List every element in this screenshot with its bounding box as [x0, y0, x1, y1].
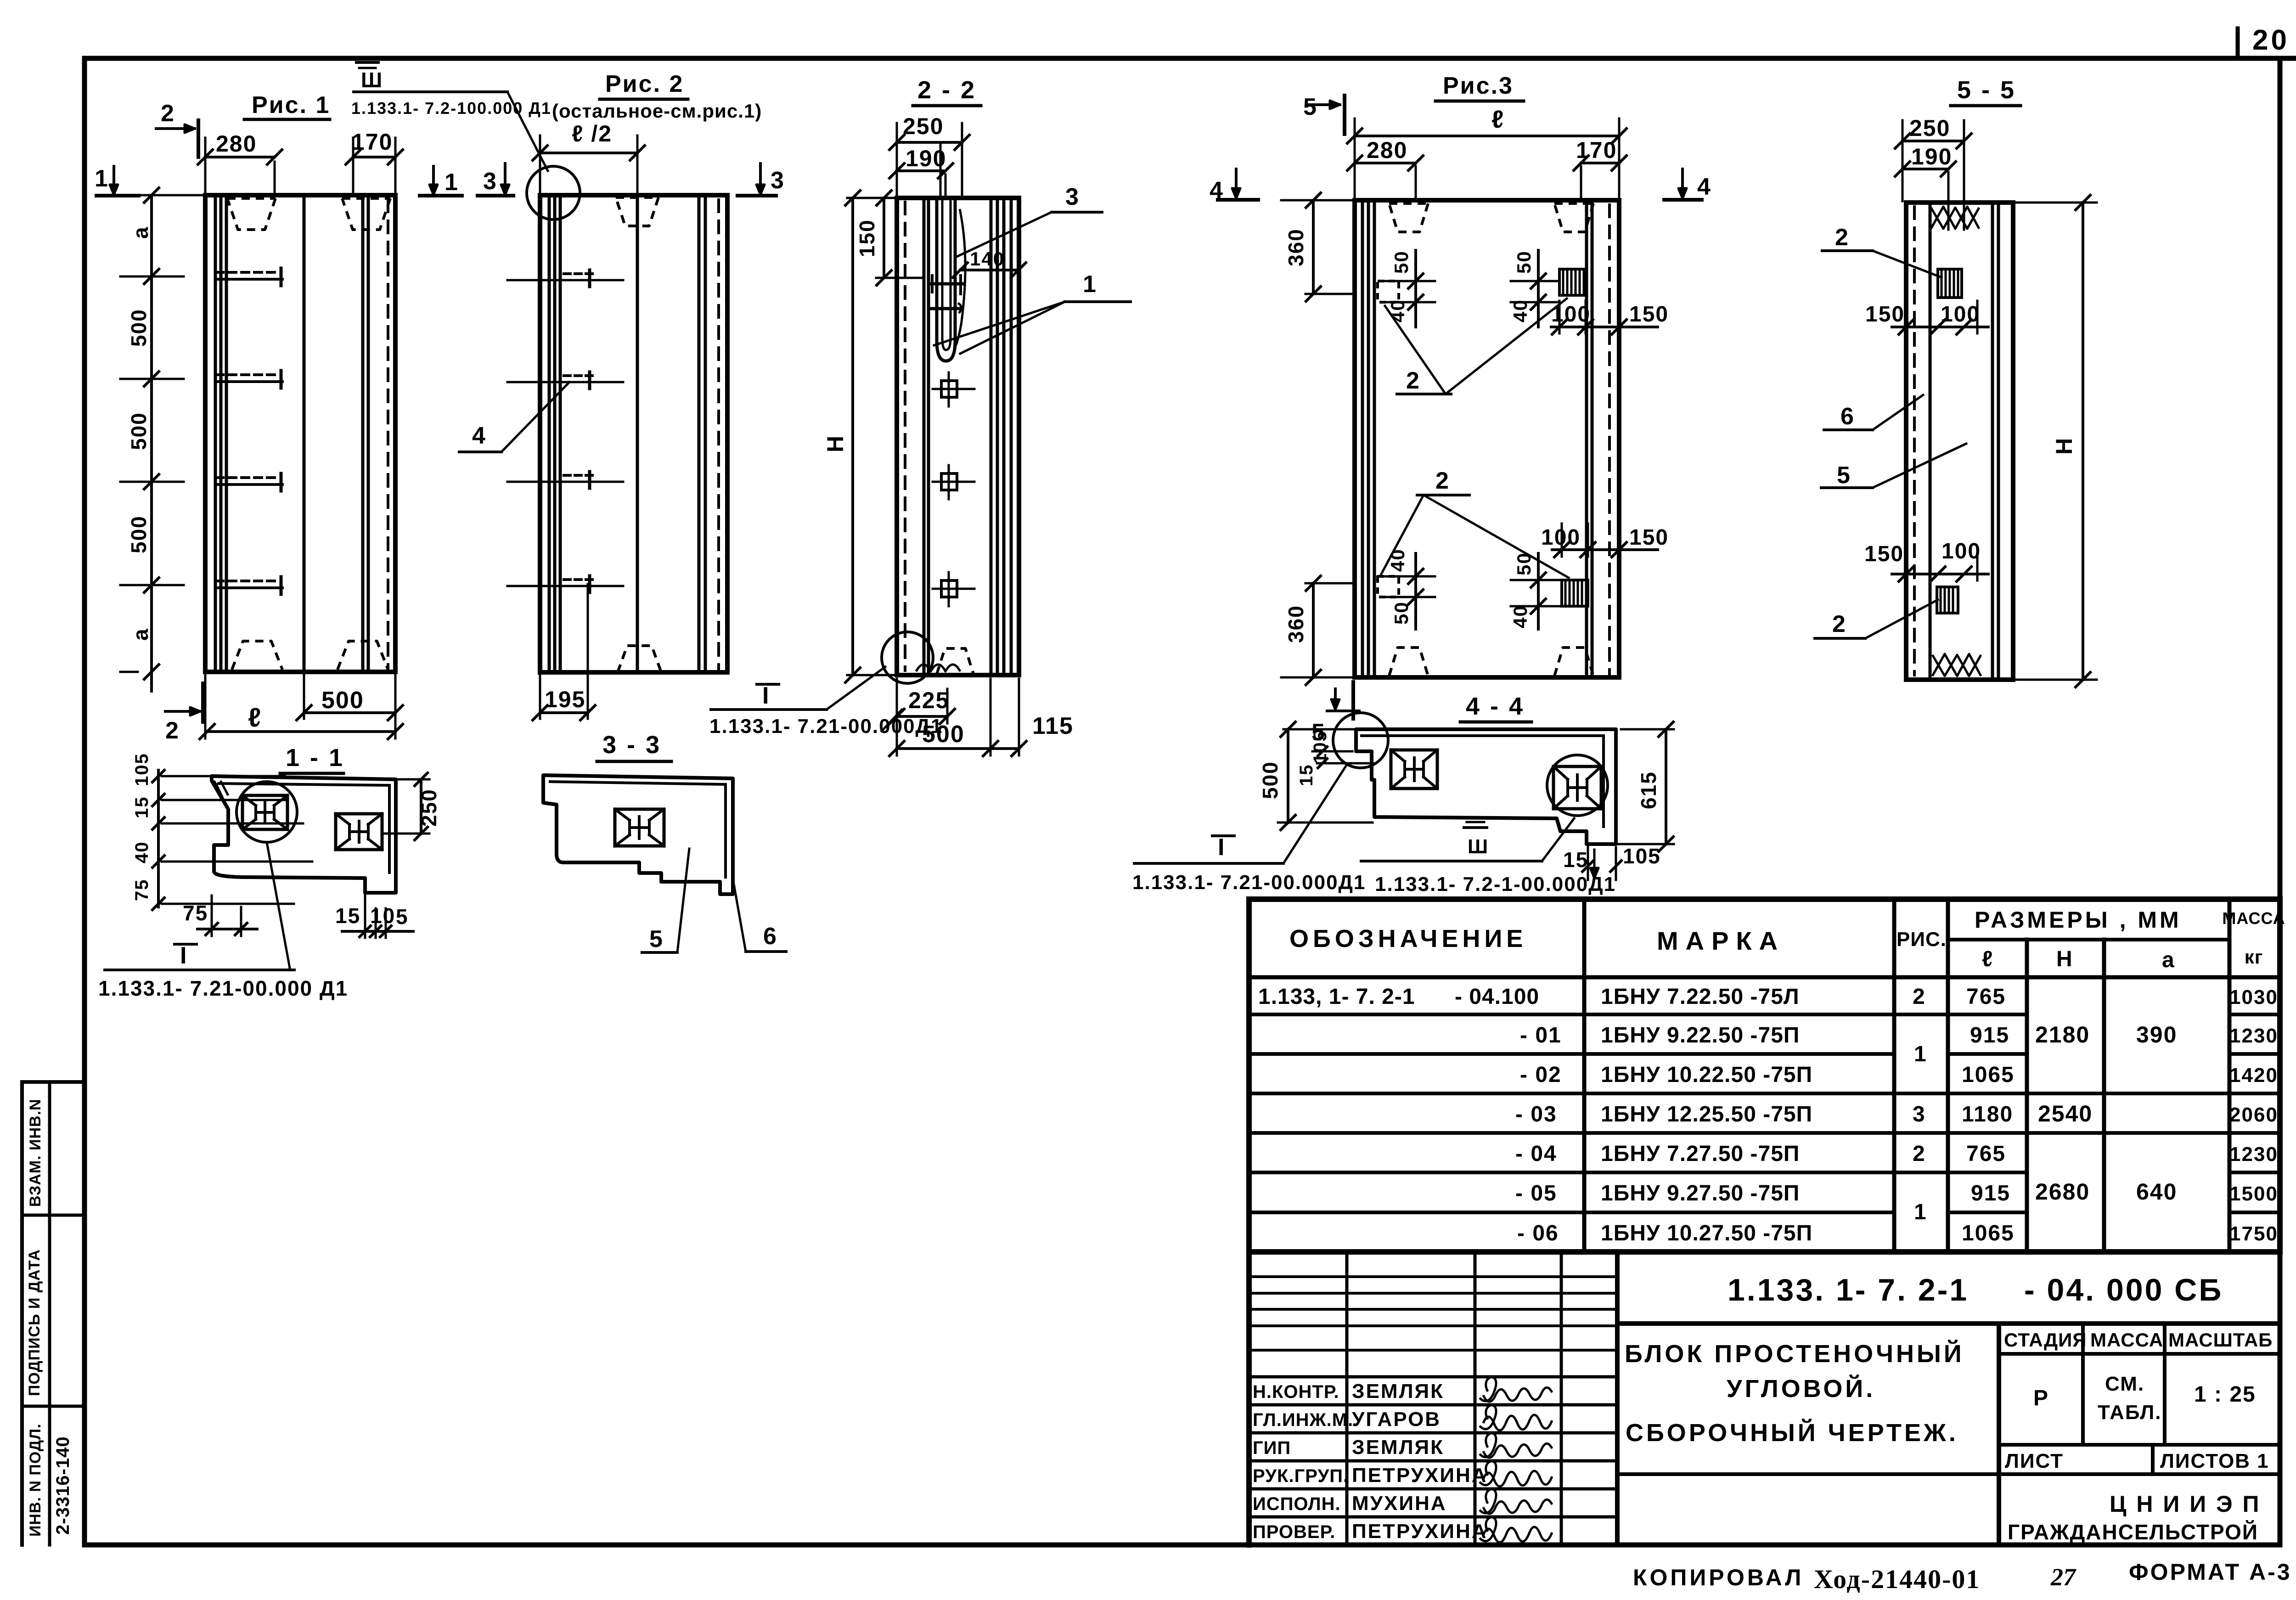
1-1 corner block plan outline — [212, 776, 396, 893]
svg-text:1750: 1750 — [2229, 1223, 2278, 1245]
svg-text:5: 5 — [1837, 462, 1851, 489]
svg-text:ЛИСТОВ 1: ЛИСТОВ 1 — [2160, 1450, 2269, 1472]
svg-text:1.133.1- 7.21-00.000Д1: 1.133.1- 7.21-00.000Д1 — [1132, 871, 1366, 894]
svg-text:765: 765 — [1966, 1142, 2006, 1166]
anchor plate (4-4 left) — [1391, 750, 1437, 789]
svg-text:5: 5 — [1303, 94, 1317, 120]
svg-text:а: а — [2162, 948, 2175, 972]
svg-text:- 04.100: - 04.100 — [1455, 985, 1539, 1009]
svg-text:500: 500 — [127, 412, 151, 450]
svg-text:3: 3 — [1913, 1102, 1926, 1127]
detail callout circle Ⅲ — [527, 166, 580, 220]
svg-text:Ход-21440-01: Ход-21440-01 — [1814, 1564, 1980, 1594]
svg-text:2060: 2060 — [2229, 1104, 2278, 1126]
hatched anchor — [1938, 269, 1962, 298]
svg-text:Рис. 1: Рис. 1 — [252, 92, 330, 118]
svg-text:СТАДИЯ: СТАДИЯ — [2004, 1329, 2087, 1351]
svg-text:40: 40 — [132, 841, 152, 864]
svg-text:500: 500 — [127, 515, 151, 553]
svg-text:765: 765 — [1966, 985, 2006, 1009]
4-4 block plan outline — [1356, 729, 1616, 844]
svg-text:1: 1 — [445, 169, 459, 196]
svg-text:Рис.3: Рис.3 — [1443, 73, 1514, 99]
table row lines — [1249, 1013, 2027, 1016]
detail callout circle Ⅰ (1-1) — [236, 782, 297, 842]
anchor plate (2-2) — [941, 381, 957, 397]
anchor loop detail (поз.1/3) — [937, 200, 955, 361]
svg-text:190: 190 — [1911, 144, 1952, 169]
svg-text:ИНВ. N ПОДЛ.: ИНВ. N ПОДЛ. — [27, 1424, 44, 1537]
svg-text:2180: 2180 — [2035, 1022, 2090, 1048]
svg-text:360: 360 — [1284, 605, 1308, 643]
svg-text:Н: Н — [2051, 437, 2077, 455]
left margin strip — [20, 1082, 24, 1545]
svg-text:Н: Н — [2056, 947, 2073, 971]
svg-text:6: 6 — [763, 923, 777, 950]
svg-text:ГЛ.ИНЖ.М.: ГЛ.ИНЖ.М. — [1253, 1410, 1353, 1430]
dimension 150 (2-2) — [883, 198, 885, 278]
svg-text:1500: 1500 — [2229, 1183, 2278, 1205]
svg-text:кг: кг — [2245, 946, 2263, 968]
svg-text:140: 140 — [970, 248, 1005, 270]
svg-text:Ц Н И И Э П: Ц Н И И Э П — [2110, 1491, 2261, 1517]
svg-text:I: I — [762, 682, 770, 709]
svg-text:ЛИСТ: ЛИСТ — [2005, 1450, 2064, 1472]
svg-text:1БНУ 9.27.50 -75П: 1БНУ 9.27.50 -75П — [1601, 1181, 1800, 1206]
svg-text:100: 100 — [1941, 539, 1981, 563]
anchor plate (3-3) — [615, 809, 664, 846]
svg-text:15: 15 — [1296, 764, 1317, 787]
svg-text:ОБОЗНАЧЕНИЕ: ОБОЗНАЧЕНИЕ — [1289, 925, 1527, 952]
dimension H (5-5) — [2082, 203, 2084, 680]
dashed anchor pocket bottom-left — [1378, 576, 1399, 597]
insulation zigzag bottom — [1932, 654, 1981, 676]
Рис.3 block outline — [1355, 200, 1619, 677]
svg-text:РИС.: РИС. — [1896, 928, 1947, 951]
svg-text:390: 390 — [2136, 1022, 2177, 1048]
3-3 block plan outline — [543, 775, 733, 894]
svg-text:УГЛОВОЙ.: УГЛОВОЙ. — [1727, 1375, 1875, 1403]
svg-text:1: 1 — [1083, 271, 1097, 298]
svg-text:50: 50 — [1513, 250, 1535, 274]
svg-text:1.133.1- 7.21-00.000 Д1: 1.133.1- 7.21-00.000 Д1 — [98, 976, 348, 1000]
svg-text:КОПИРОВАЛ: КОПИРОВАЛ — [1633, 1565, 1804, 1590]
svg-text:ПОДПИСЬ И ДАТА: ПОДПИСЬ И ДАТА — [26, 1249, 43, 1396]
revision grid — [1249, 1275, 1617, 1278]
dimension 250 right (1-1) — [420, 779, 422, 834]
svg-text:(остальное-см.рис.1): (остальное-см.рис.1) — [552, 100, 762, 122]
lifting socket (dashed trapezoid) — [1554, 203, 1593, 232]
dashed anchor pocket top-left — [1378, 281, 1399, 302]
svg-text:1065: 1065 — [1962, 1063, 2015, 1087]
svg-text:250: 250 — [903, 113, 944, 139]
svg-text:ЗЕМЛЯК: ЗЕМЛЯК — [1352, 1380, 1444, 1403]
svg-text:360: 360 — [1284, 228, 1308, 266]
svg-text:МАССА: МАССА — [2222, 909, 2285, 928]
title block — [1246, 1252, 1252, 1545]
leader from circle Ⅰ — [267, 842, 290, 968]
svg-text:ℓ /2: ℓ /2 — [572, 121, 612, 146]
2-2 internal layer lines — [904, 202, 906, 670]
svg-text:3: 3 — [1065, 184, 1080, 210]
svg-text:1БНУ 12.25.50 -75П: 1БНУ 12.25.50 -75П — [1601, 1102, 1812, 1127]
svg-text:1БНУ 7.27.50 -75П: 1БНУ 7.27.50 -75П — [1601, 1142, 1800, 1166]
svg-text:2 - 2: 2 - 2 — [917, 76, 976, 104]
svg-text:МАРКА: МАРКА — [1657, 926, 1785, 955]
dimension H (2-2) — [851, 198, 854, 675]
svg-text:5: 5 — [649, 926, 664, 952]
svg-text:15: 15 — [132, 796, 152, 819]
svg-text:3: 3 — [771, 167, 785, 194]
svg-text:2-3316-140: 2-3316-140 — [53, 1436, 73, 1535]
tie marks (поз.4) Рис.2 — [507, 279, 623, 282]
svg-text:ЗЕМЛЯК: ЗЕМЛЯК — [1352, 1436, 1444, 1459]
stamp: СТАДИЯ МАССА МАСШТАБ — [1999, 1352, 2280, 1356]
detail callout circle Ⅲ (4-4) — [1547, 755, 1608, 816]
svg-text:3: 3 — [483, 168, 497, 195]
svg-text:500: 500 — [922, 721, 965, 748]
svg-text:1БНУ 7.22.50 -75Л: 1БНУ 7.22.50 -75Л — [1601, 985, 1800, 1009]
left dimension chain (1-1) — [157, 770, 160, 907]
svg-text:1230: 1230 — [2229, 1143, 2278, 1166]
svg-text:a: a — [129, 226, 152, 239]
svg-text:ТАБЛ.: ТАБЛ. — [2098, 1401, 2162, 1424]
5-5 wall section outline — [1906, 203, 2013, 680]
svg-text:3 - 3: 3 - 3 — [602, 731, 661, 759]
Рис.2 block outline — [540, 195, 727, 672]
hatched anchor — [1562, 580, 1588, 606]
svg-text:150: 150 — [1864, 542, 1904, 566]
svg-text:- 02: - 02 — [1520, 1063, 1562, 1087]
stamp: ЛИСТ / ЛИСТОВ row — [1999, 1443, 2280, 1447]
svg-text:4: 4 — [472, 423, 486, 449]
svg-text:250: 250 — [1909, 115, 1950, 141]
svg-text:170: 170 — [1576, 137, 1617, 163]
svg-text:1БНУ 10.27.50 -75П: 1БНУ 10.27.50 -75П — [1601, 1221, 1812, 1245]
5-5 internal layer lines — [1913, 207, 1916, 675]
svg-text:ℓ: ℓ — [1491, 106, 1504, 133]
svg-text:100: 100 — [1941, 302, 1980, 327]
svg-text:Н: Н — [822, 435, 848, 452]
svg-text:1: 1 — [1914, 1200, 1927, 1224]
lifting socket (dashed trapezoid) — [618, 646, 661, 672]
lifting socket (dashed trapezoid) — [616, 197, 658, 226]
svg-text:1.133, 1- 7. 2-1: 1.133, 1- 7. 2-1 — [1258, 985, 1415, 1009]
svg-text:1230: 1230 — [2229, 1025, 2278, 1047]
svg-text:РАЗМЕРЫ , ММ: РАЗМЕРЫ , ММ — [1975, 907, 2182, 933]
svg-text:1.133.1- 7.2-1-00.000Д1: 1.133.1- 7.2-1-00.000Д1 — [1375, 873, 1616, 896]
lifting socket (dashed trapezoid) — [1554, 648, 1593, 676]
Рис.1 block outline — [205, 195, 395, 672]
svg-text:- 01: - 01 — [1520, 1023, 1562, 1048]
dimension 360 top (Рис.3) — [1312, 200, 1315, 294]
detail callout circle Ⅰ — [882, 632, 933, 683]
svg-text:МУХИНА: МУХИНА — [1352, 1492, 1447, 1515]
lifting socket (dashed trapezoid) — [227, 198, 276, 230]
svg-text:6: 6 — [1840, 403, 1855, 430]
svg-text:40: 40 — [1509, 605, 1531, 628]
lifting socket (dashed trapezoid) — [1389, 203, 1428, 232]
svg-text:Р: Р — [2033, 1386, 2049, 1410]
svg-text:СМ.: СМ. — [2105, 1373, 2144, 1395]
hatched anchor — [1937, 587, 1958, 613]
svg-text:1: 1 — [95, 165, 109, 192]
chamfer hatch — [214, 781, 228, 809]
anchor plate (2-2) — [941, 473, 957, 490]
svg-text:2680: 2680 — [2035, 1179, 2090, 1205]
svg-text:1.133. 1- 7. 2-1: 1.133. 1- 7. 2-1 — [1728, 1273, 1969, 1307]
svg-text:50: 50 — [1390, 250, 1412, 274]
svg-text:50: 50 — [1390, 601, 1412, 625]
lifting socket (dashed trapezoid) — [232, 641, 282, 670]
svg-text:1.133.1- 7.21-00.000Д1: 1.133.1- 7.21-00.000Д1 — [709, 715, 943, 738]
svg-text:225: 225 — [908, 687, 949, 713]
svg-text:ВЗАМ. ИНВ.N: ВЗАМ. ИНВ.N — [27, 1099, 44, 1207]
svg-text:2: 2 — [1832, 611, 1846, 637]
svg-text:4: 4 — [1697, 174, 1711, 200]
anchor plate (4-4 right, circled) — [1553, 766, 1601, 809]
Рис.1 internal layer lines — [214, 195, 217, 672]
leader to detail circle — [507, 92, 548, 171]
svg-text:1180: 1180 — [1962, 1102, 2013, 1127]
insulation zigzag top — [1931, 207, 1979, 229]
svg-text:500: 500 — [127, 309, 151, 347]
anchor plate (1-1 circled) — [242, 795, 287, 829]
svg-text:105: 105 — [1623, 844, 1661, 868]
hatched anchor — [1559, 269, 1586, 295]
svg-text:500: 500 — [321, 687, 364, 714]
svg-text:ФОРМАТ А-3: ФОРМАТ А-3 — [2129, 1559, 2292, 1585]
anchor plate (1-1 right) — [336, 814, 382, 850]
svg-text:1 : 25: 1 : 25 — [2194, 1382, 2256, 1407]
svg-text:ℓ: ℓ — [1982, 947, 1993, 971]
svg-text:615: 615 — [1637, 771, 1660, 809]
svg-text:915: 915 — [1970, 1023, 2009, 1048]
leader to circle Ⅰ — [1283, 766, 1346, 863]
svg-text:150: 150 — [1865, 302, 1905, 327]
svg-text:1: 1 — [1914, 1042, 1927, 1066]
svg-text:УГАРОВ: УГАРОВ — [1352, 1408, 1441, 1431]
dimension 615 (4-4) — [1665, 729, 1667, 844]
svg-text:РУК.ГРУП.: РУК.ГРУП. — [1253, 1466, 1349, 1486]
tie marks (поз.4) — [216, 278, 282, 281]
dimension 500 (4-4) — [1287, 729, 1289, 823]
svg-text:a: a — [129, 628, 152, 641]
svg-text:СБОРОЧНЫЙ ЧЕРТЕЖ.: СБОРОЧНЫЙ ЧЕРТЕЖ. — [1626, 1419, 1958, 1447]
svg-text:2: 2 — [1913, 1142, 1926, 1166]
РАЗМЕРЫ header underline — [1948, 938, 2229, 941]
2-2 wall section outline — [897, 198, 1019, 675]
svg-text:1065: 1065 — [1962, 1221, 2015, 1245]
svg-text:2: 2 — [1435, 468, 1450, 494]
svg-text:20: 20 — [2252, 24, 2290, 56]
sheet border frame — [84, 56, 2280, 61]
svg-text:МАСШТАБ: МАСШТАБ — [2168, 1329, 2273, 1351]
specification table frame — [1249, 896, 2280, 902]
svg-text:- 03: - 03 — [1515, 1102, 1557, 1127]
table header separator — [1249, 975, 2280, 980]
lifting socket (dashed trapezoid) — [1389, 648, 1428, 676]
svg-text:ПРОВЕР.: ПРОВЕР. — [1253, 1522, 1335, 1542]
svg-text:280: 280 — [1367, 137, 1407, 163]
svg-text:ГИП: ГИП — [1253, 1438, 1291, 1458]
svg-text:1БНУ 9.22.50 -75П: 1БНУ 9.22.50 -75П — [1601, 1023, 1800, 1048]
svg-text:75: 75 — [183, 901, 208, 925]
lifting socket (dashed trapezoid) — [342, 198, 390, 230]
Рис.2 internal layer lines — [548, 195, 551, 672]
anchor plate (2-2) — [941, 580, 957, 597]
svg-text:Рис. 2: Рис. 2 — [605, 71, 684, 97]
svg-text:2: 2 — [1406, 367, 1420, 394]
svg-text:2: 2 — [1835, 224, 1849, 251]
svg-text:ℓ: ℓ — [248, 703, 262, 732]
svg-text:ГРАЖДАНСЕЛЬСТРОЙ: ГРАЖДАНСЕЛЬСТРОЙ — [2008, 1520, 2258, 1544]
signature rows — [1249, 1403, 1617, 1407]
leader to circle Ⅲ — [1542, 818, 1574, 861]
detail callout circle Ⅰ (4-4) — [1333, 713, 1388, 768]
svg-text:БЛОК ПРОСТЕНОЧНЫЙ: БЛОК ПРОСТЕНОЧНЫЙ — [1625, 1340, 1964, 1368]
Рис.3 internal layer lines — [1361, 200, 1364, 677]
svg-text:1 - 1: 1 - 1 — [286, 744, 344, 772]
svg-text:250: 250 — [417, 789, 441, 827]
svg-text:- 06: - 06 — [1517, 1221, 1559, 1245]
svg-text:- 04: - 04 — [1515, 1142, 1557, 1166]
svg-text:5 - 5: 5 - 5 — [1957, 76, 2016, 104]
svg-text:10: 10 — [370, 904, 395, 928]
svg-text:500: 500 — [1258, 761, 1282, 799]
svg-text:I: I — [1218, 834, 1225, 861]
svg-text:Ш: Ш — [1468, 835, 1489, 858]
svg-text:115: 115 — [1032, 713, 1074, 739]
svg-text:915: 915 — [1971, 1181, 2010, 1206]
svg-text:640: 640 — [2136, 1179, 2177, 1205]
table column lines — [1582, 899, 1587, 1252]
svg-text:- 04. 000 СБ: - 04. 000 СБ — [2024, 1273, 2223, 1307]
concrete break line — [916, 665, 960, 671]
svg-text:ПЕТРУХИНА: ПЕТРУХИНА — [1352, 1464, 1488, 1487]
svg-text:195: 195 — [545, 687, 585, 712]
svg-text:ИСПОЛН.: ИСПОЛН. — [1253, 1494, 1341, 1514]
svg-text:280: 280 — [216, 131, 257, 157]
svg-text:150: 150 — [1629, 525, 1669, 550]
svg-text:- 05: - 05 — [1515, 1181, 1557, 1206]
svg-text:Н.КОНТР.: Н.КОНТР. — [1253, 1382, 1339, 1402]
lifting socket (dashed trapezoid) — [338, 641, 388, 670]
left dimension chain (a,500,500,500,a) — [150, 195, 153, 691]
svg-text:Ш: Ш — [361, 68, 383, 92]
leader to bottom detail circle — [827, 667, 885, 710]
stamp: organization — [1999, 1472, 2280, 1476]
svg-text:150: 150 — [855, 219, 879, 257]
svg-text:2540: 2540 — [2038, 1101, 2093, 1127]
svg-text:1.133.1- 7.2-100.000 Д1: 1.133.1- 7.2-100.000 Д1 — [351, 99, 551, 118]
svg-text:4 - 4: 4 - 4 — [1466, 693, 1525, 720]
svg-text:75: 75 — [132, 879, 152, 901]
svg-text:27: 27 — [2050, 1563, 2077, 1591]
svg-text:1БНУ 10.22.50 -75П: 1БНУ 10.22.50 -75П — [1601, 1063, 1812, 1087]
svg-text:I: I — [180, 942, 187, 969]
svg-text:5: 5 — [396, 905, 409, 929]
svg-text:15: 15 — [335, 904, 360, 928]
dimension 360 bottom (Рис.3) — [1312, 583, 1315, 677]
lifting socket (dashed trapezoid) — [937, 648, 974, 674]
svg-text:МАССА: МАССА — [2090, 1329, 2163, 1351]
svg-text:1420: 1420 — [2229, 1064, 2278, 1087]
svg-text:105: 105 — [132, 753, 152, 786]
section mark 5 bottom — [1351, 682, 1355, 719]
svg-text:1030: 1030 — [2229, 986, 2278, 1008]
svg-text:2: 2 — [165, 717, 180, 744]
svg-text:2: 2 — [161, 100, 175, 127]
svg-text:2: 2 — [1913, 985, 1926, 1009]
svg-text:150: 150 — [1629, 302, 1669, 327]
svg-text:ПЕТРУХИНА: ПЕТРУХИНА — [1352, 1520, 1488, 1543]
